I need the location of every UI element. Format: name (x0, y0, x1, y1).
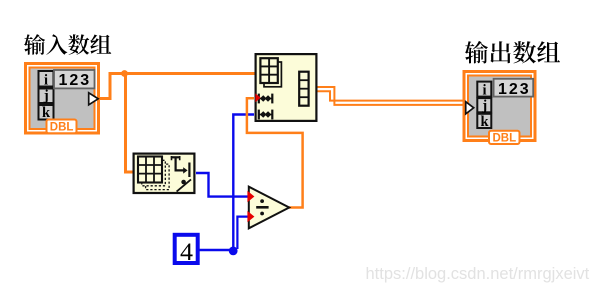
123 numeric field (54, 70, 95, 88)
svg-text:i: i (44, 72, 48, 88)
index box i (39, 71, 54, 87)
svg-text:j: j (43, 88, 49, 104)
output array terminal 输出数组 (DBL 2D array indicator) (464, 72, 535, 145)
array size node (matrix size VI) (134, 154, 195, 193)
inner orange frame (30, 68, 95, 130)
DBL tag (47, 120, 77, 134)
outer orange frame (26, 64, 99, 134)
wire: divide output loop to reshape index input (orange scalar) (247, 98, 303, 207)
123 numeric field (494, 79, 534, 97)
svg-text:i: i (482, 82, 486, 98)
constant 4 (I32) (175, 235, 198, 266)
wire: reshape output to output array (2D array, double orange) (318, 87, 466, 105)
coercion arrow y input (247, 211, 254, 222)
stacked grid icon with dashed shadows (138, 157, 169, 190)
index box j (477, 98, 491, 112)
svg-text:k: k (480, 114, 489, 130)
index box k (39, 105, 54, 120)
coercion arrow x input (247, 191, 254, 202)
index box j (39, 89, 54, 104)
node junction on blue wire (229, 247, 238, 256)
outer orange frame (464, 72, 535, 141)
label output-array 输出数组 (465, 41, 560, 64)
svg-text:j: j (481, 98, 487, 114)
svg-text:123: 123 (498, 81, 531, 98)
inner orange frame (468, 76, 531, 137)
label input-array 输入数组 (24, 34, 111, 55)
svg-text:DBL: DBL (492, 133, 516, 145)
reshape array node (255, 54, 316, 121)
svg-text:k: k (42, 105, 51, 121)
svg-text:4: 4 (180, 239, 194, 266)
wire: junction up to reshape bottom input (233, 115, 254, 252)
svg-text:DBL: DBL (50, 122, 74, 134)
svg-text:123: 123 (59, 72, 92, 89)
index box i (477, 82, 491, 97)
coercion dot (red) on index input (255, 93, 260, 102)
wire: branch down from junction to array-size node (126, 74, 134, 173)
1D array output icon (299, 72, 308, 106)
output terminal triangle (89, 93, 99, 105)
node junction on orange wire (121, 70, 128, 77)
wire: junction branch to divide y input (237, 217, 247, 249)
DBL tag (489, 131, 520, 144)
dim input glyph row 1 (259, 94, 273, 104)
svg-text:https://blog.csdn.net/rmrgjxei: https://blog.csdn.net/rmrgjxeivt (366, 265, 590, 283)
wire: array size output to divide x input (blue scalar) (196, 173, 248, 197)
2D grid icon with shadow (260, 58, 281, 87)
dim input glyph row 2 (259, 110, 273, 120)
input terminal triangle (466, 102, 474, 114)
wire: constant 4 to junction (blue scalar) (200, 249, 234, 251)
gray panel (469, 77, 530, 136)
input array terminal 输入数组 (DBL 1D array control) (26, 64, 99, 134)
divide function (247, 187, 289, 229)
gray panel (31, 69, 94, 129)
wire: input array to junction and reshape top input (1D array, orange) (99, 74, 256, 99)
measure glyph (171, 156, 191, 192)
index box k (477, 114, 491, 128)
